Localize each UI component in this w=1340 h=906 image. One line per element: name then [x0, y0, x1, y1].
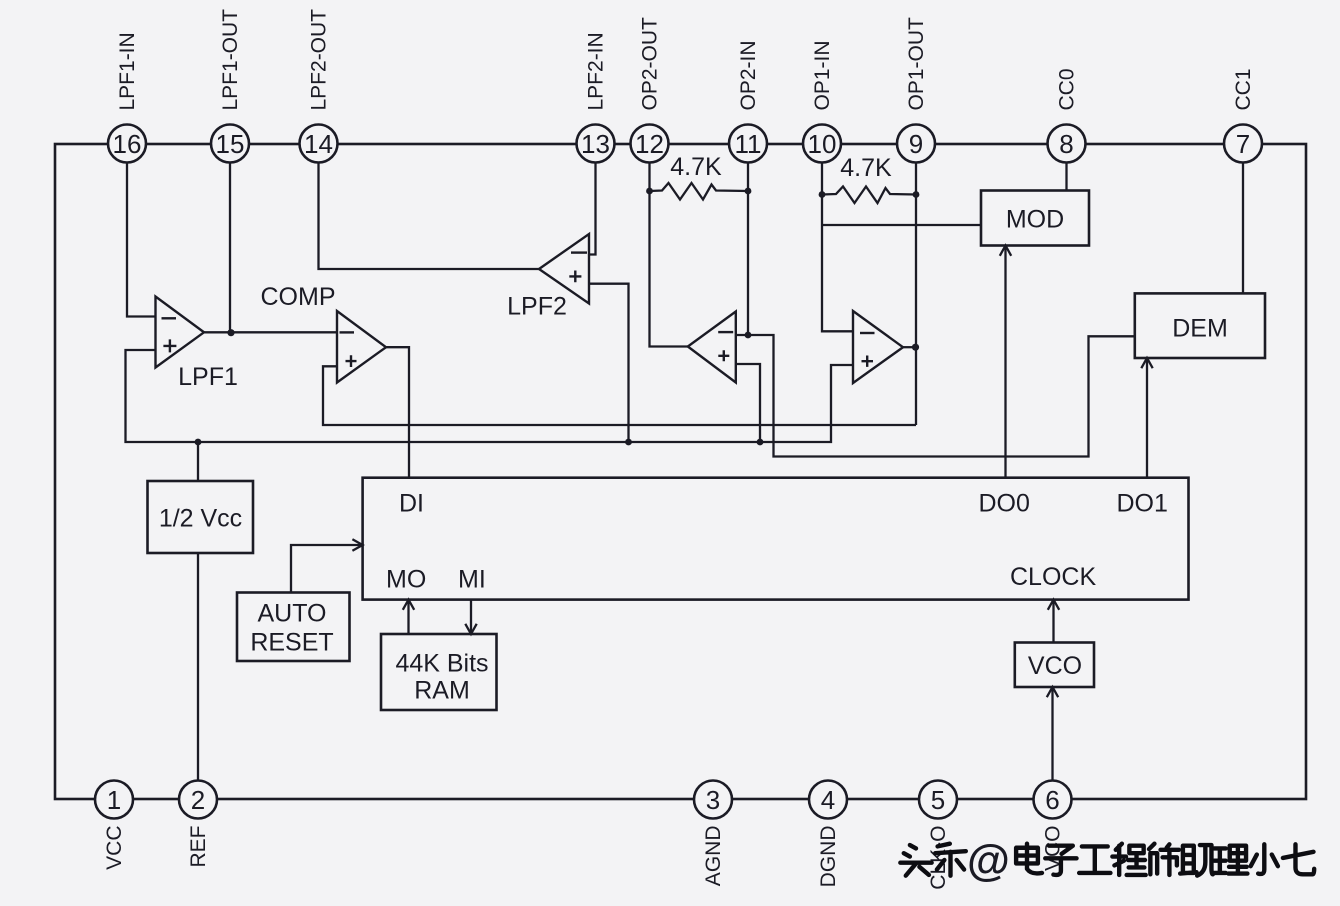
svg-text:LPF2-OUT: LPF2-OUT	[308, 9, 331, 111]
svg-text:9: 9	[909, 129, 923, 159]
pin 14	[300, 125, 338, 163]
node junction bus to 1/2 Vcc	[195, 439, 202, 446]
glyph cheng	[1112, 844, 1145, 875]
wire pin14 to LPF2 output	[319, 163, 540, 270]
svg-text:OP2-IN: OP2-IN	[737, 40, 760, 110]
svg-text:3: 3	[706, 785, 720, 815]
svg-text:LPF1: LPF1	[178, 363, 238, 391]
svg-text:CLOCK: CLOCK	[1010, 563, 1096, 591]
svg-text:4: 4	[821, 785, 835, 815]
pin 5	[919, 781, 957, 819]
pin 11	[729, 125, 767, 163]
svg-text:4.7K: 4.7K	[670, 153, 722, 181]
glyph dian	[1016, 844, 1042, 874]
pin 9	[897, 125, 935, 163]
svg-text:AUTO: AUTO	[258, 600, 327, 628]
glyph zhu	[1180, 845, 1213, 876]
IC outer boundary box	[55, 144, 1306, 799]
op-amp LPF1	[156, 297, 205, 368]
svg-text:DGND: DGND	[817, 826, 840, 888]
glyph shi	[1149, 844, 1179, 875]
svg-text:MI: MI	[458, 566, 486, 594]
wire pin10 to OP1 inverting input	[822, 163, 853, 332]
svg-text:VCC: VCC	[103, 826, 126, 870]
node junction OP1 output / pin9	[912, 344, 919, 351]
glyph gong	[1079, 846, 1110, 873]
svg-text:DO0: DO0	[979, 490, 1030, 518]
wire DEM output to OP2 inverting node	[748, 335, 1135, 457]
watermark 头条 @电子工程师助理小七	[900, 836, 1314, 885]
svg-text:12: 12	[635, 129, 664, 159]
wire pin6 to VCO with arrow	[1051, 687, 1053, 781]
wire pin16 to LPF1 inverting input	[127, 163, 156, 317]
op-amp OP2 (points left)	[688, 312, 736, 383]
svg-text:6: 6	[1045, 785, 1059, 815]
op-amp OP1 (points right)	[853, 311, 903, 383]
block DEM	[1135, 293, 1265, 358]
glyph qi	[1283, 844, 1314, 874]
svg-text:CC0: CC0	[1056, 68, 1079, 110]
node resistor dot left (pin12)	[646, 188, 653, 195]
svg-text:OP2-OUT: OP2-OUT	[639, 17, 662, 111]
wire OP2 non-inverting input to bus	[736, 364, 760, 442]
svg-text:LPF1-IN: LPF1-IN	[116, 32, 139, 110]
resistor R 4.7K (pins 12-11)	[650, 183, 749, 200]
wire pin11 to OP2 inverting input	[736, 163, 748, 336]
svg-text:RAM: RAM	[414, 677, 470, 705]
svg-text:5: 5	[931, 785, 945, 815]
svg-text:13: 13	[581, 129, 610, 159]
svg-text:7: 7	[1236, 129, 1250, 159]
svg-text:44K Bits: 44K Bits	[395, 650, 488, 678]
block AUTO RESET	[237, 593, 350, 662]
svg-text:10: 10	[808, 129, 837, 159]
svg-text:15: 15	[216, 129, 245, 159]
glyph xiao	[1251, 844, 1278, 874]
node junction bus to LPF2 +	[625, 439, 632, 446]
svg-text:DI: DI	[399, 490, 424, 518]
svg-text:REF: REF	[187, 826, 210, 868]
svg-text:2: 2	[191, 785, 205, 815]
pin 10	[803, 125, 841, 163]
svg-text:16: 16	[113, 129, 142, 159]
svg-text:MO: MO	[386, 566, 426, 594]
wire DO1 to DEM with arrow	[1146, 358, 1148, 478]
wire COMP output to DI	[386, 347, 409, 478]
block 44K Bits RAM	[381, 634, 497, 710]
node junction OP2 inverting / DEM feed	[745, 332, 752, 339]
wire AUTO RESET to block with arrow	[291, 545, 363, 593]
pin 15	[211, 125, 249, 163]
wire pin12 to OP2 output	[650, 163, 688, 347]
wire LPF2 non-inverting input to bus	[589, 284, 629, 442]
svg-text:CLK-O: CLK-O	[927, 826, 950, 890]
wire pin7 to DEM	[1242, 163, 1244, 294]
pin 3	[694, 781, 732, 819]
node resistor dot right (pin9)	[913, 191, 920, 198]
wire LPF1 non-inverting input to 1/2Vcc bus	[126, 350, 854, 442]
block digital core (DI/MO/MI/DO0/DO1/CLOCK)	[363, 478, 1189, 600]
op-amp COMP	[337, 311, 386, 383]
wire LPF1 output to COMP inverting input	[204, 331, 336, 333]
svg-text:COMP: COMP	[261, 283, 336, 311]
svg-text:14: 14	[304, 129, 333, 159]
svg-text:11: 11	[735, 129, 762, 159]
wire pin8 to MOD	[1065, 163, 1067, 191]
pin 13	[577, 125, 615, 163]
pin 6	[1034, 781, 1072, 819]
resistor R 4.7K (pins 10-9)	[822, 187, 916, 204]
pin 16	[108, 125, 146, 163]
node junction pin15/LPF1-OUT	[227, 329, 234, 336]
wire COMP non-inverting input to pin9 net	[323, 366, 916, 425]
svg-text:OP1-IN: OP1-IN	[811, 40, 834, 110]
block 1/2 Vcc	[148, 481, 254, 553]
svg-text:1/2 Vcc: 1/2 Vcc	[159, 505, 242, 533]
wire pin10 node to MOD input	[822, 224, 981, 226]
svg-text:DEM: DEM	[1172, 315, 1228, 343]
wire VCO to CLOCK with arrow	[1052, 600, 1054, 643]
svg-text:CC1: CC1	[1232, 68, 1255, 110]
svg-text:LPF1-OUT: LPF1-OUT	[219, 9, 242, 111]
block VCO	[1015, 643, 1094, 688]
svg-text:4.7K: 4.7K	[840, 154, 892, 182]
pin 8	[1048, 125, 1086, 163]
pin 2	[179, 781, 217, 819]
op-amp LPF2 (points left)	[539, 234, 589, 304]
svg-text:DO1: DO1	[1117, 490, 1168, 518]
svg-text:AGND: AGND	[702, 826, 725, 887]
svg-text:MOD: MOD	[1006, 206, 1064, 234]
wire MI from block to RAM with arrow	[470, 600, 472, 634]
node resistor dot right (pin11)	[745, 188, 752, 195]
svg-text:8: 8	[1059, 129, 1073, 159]
wire pin2 to 1/2Vcc	[197, 553, 199, 781]
block MOD	[981, 191, 1089, 246]
pin 1	[95, 781, 133, 819]
svg-text:OP1-OUT: OP1-OUT	[905, 17, 928, 111]
svg-text:LPF2: LPF2	[507, 293, 567, 321]
svg-text:1: 1	[107, 785, 121, 815]
wire pin13 to LPF2 inverting input	[589, 163, 596, 255]
pin 12	[631, 125, 669, 163]
glyph zi	[1045, 846, 1076, 875]
wire DO0 to MOD with arrow	[1004, 246, 1006, 478]
node resistor dot left (pin10)	[819, 191, 826, 198]
glyph li	[1214, 846, 1247, 874]
wire MO from RAM to block with arrow	[407, 600, 409, 634]
wire pin15 to LPF1 output	[229, 163, 231, 334]
wire OP1 output stub	[903, 346, 916, 348]
wire pin9 vertical	[915, 163, 917, 426]
svg-text:RESET: RESET	[250, 629, 333, 657]
svg-text:LPF2-IN: LPF2-IN	[585, 32, 608, 110]
svg-text:@: @	[967, 836, 1010, 885]
pin 4	[809, 781, 847, 819]
node junction bus to OP2 +	[757, 439, 764, 446]
wire 1/2Vcc to bus	[197, 442, 199, 481]
glyph tiao	[935, 844, 966, 876]
pin 7	[1224, 125, 1262, 163]
glyph tou	[900, 845, 931, 876]
svg-text:VCO: VCO	[1028, 652, 1082, 680]
